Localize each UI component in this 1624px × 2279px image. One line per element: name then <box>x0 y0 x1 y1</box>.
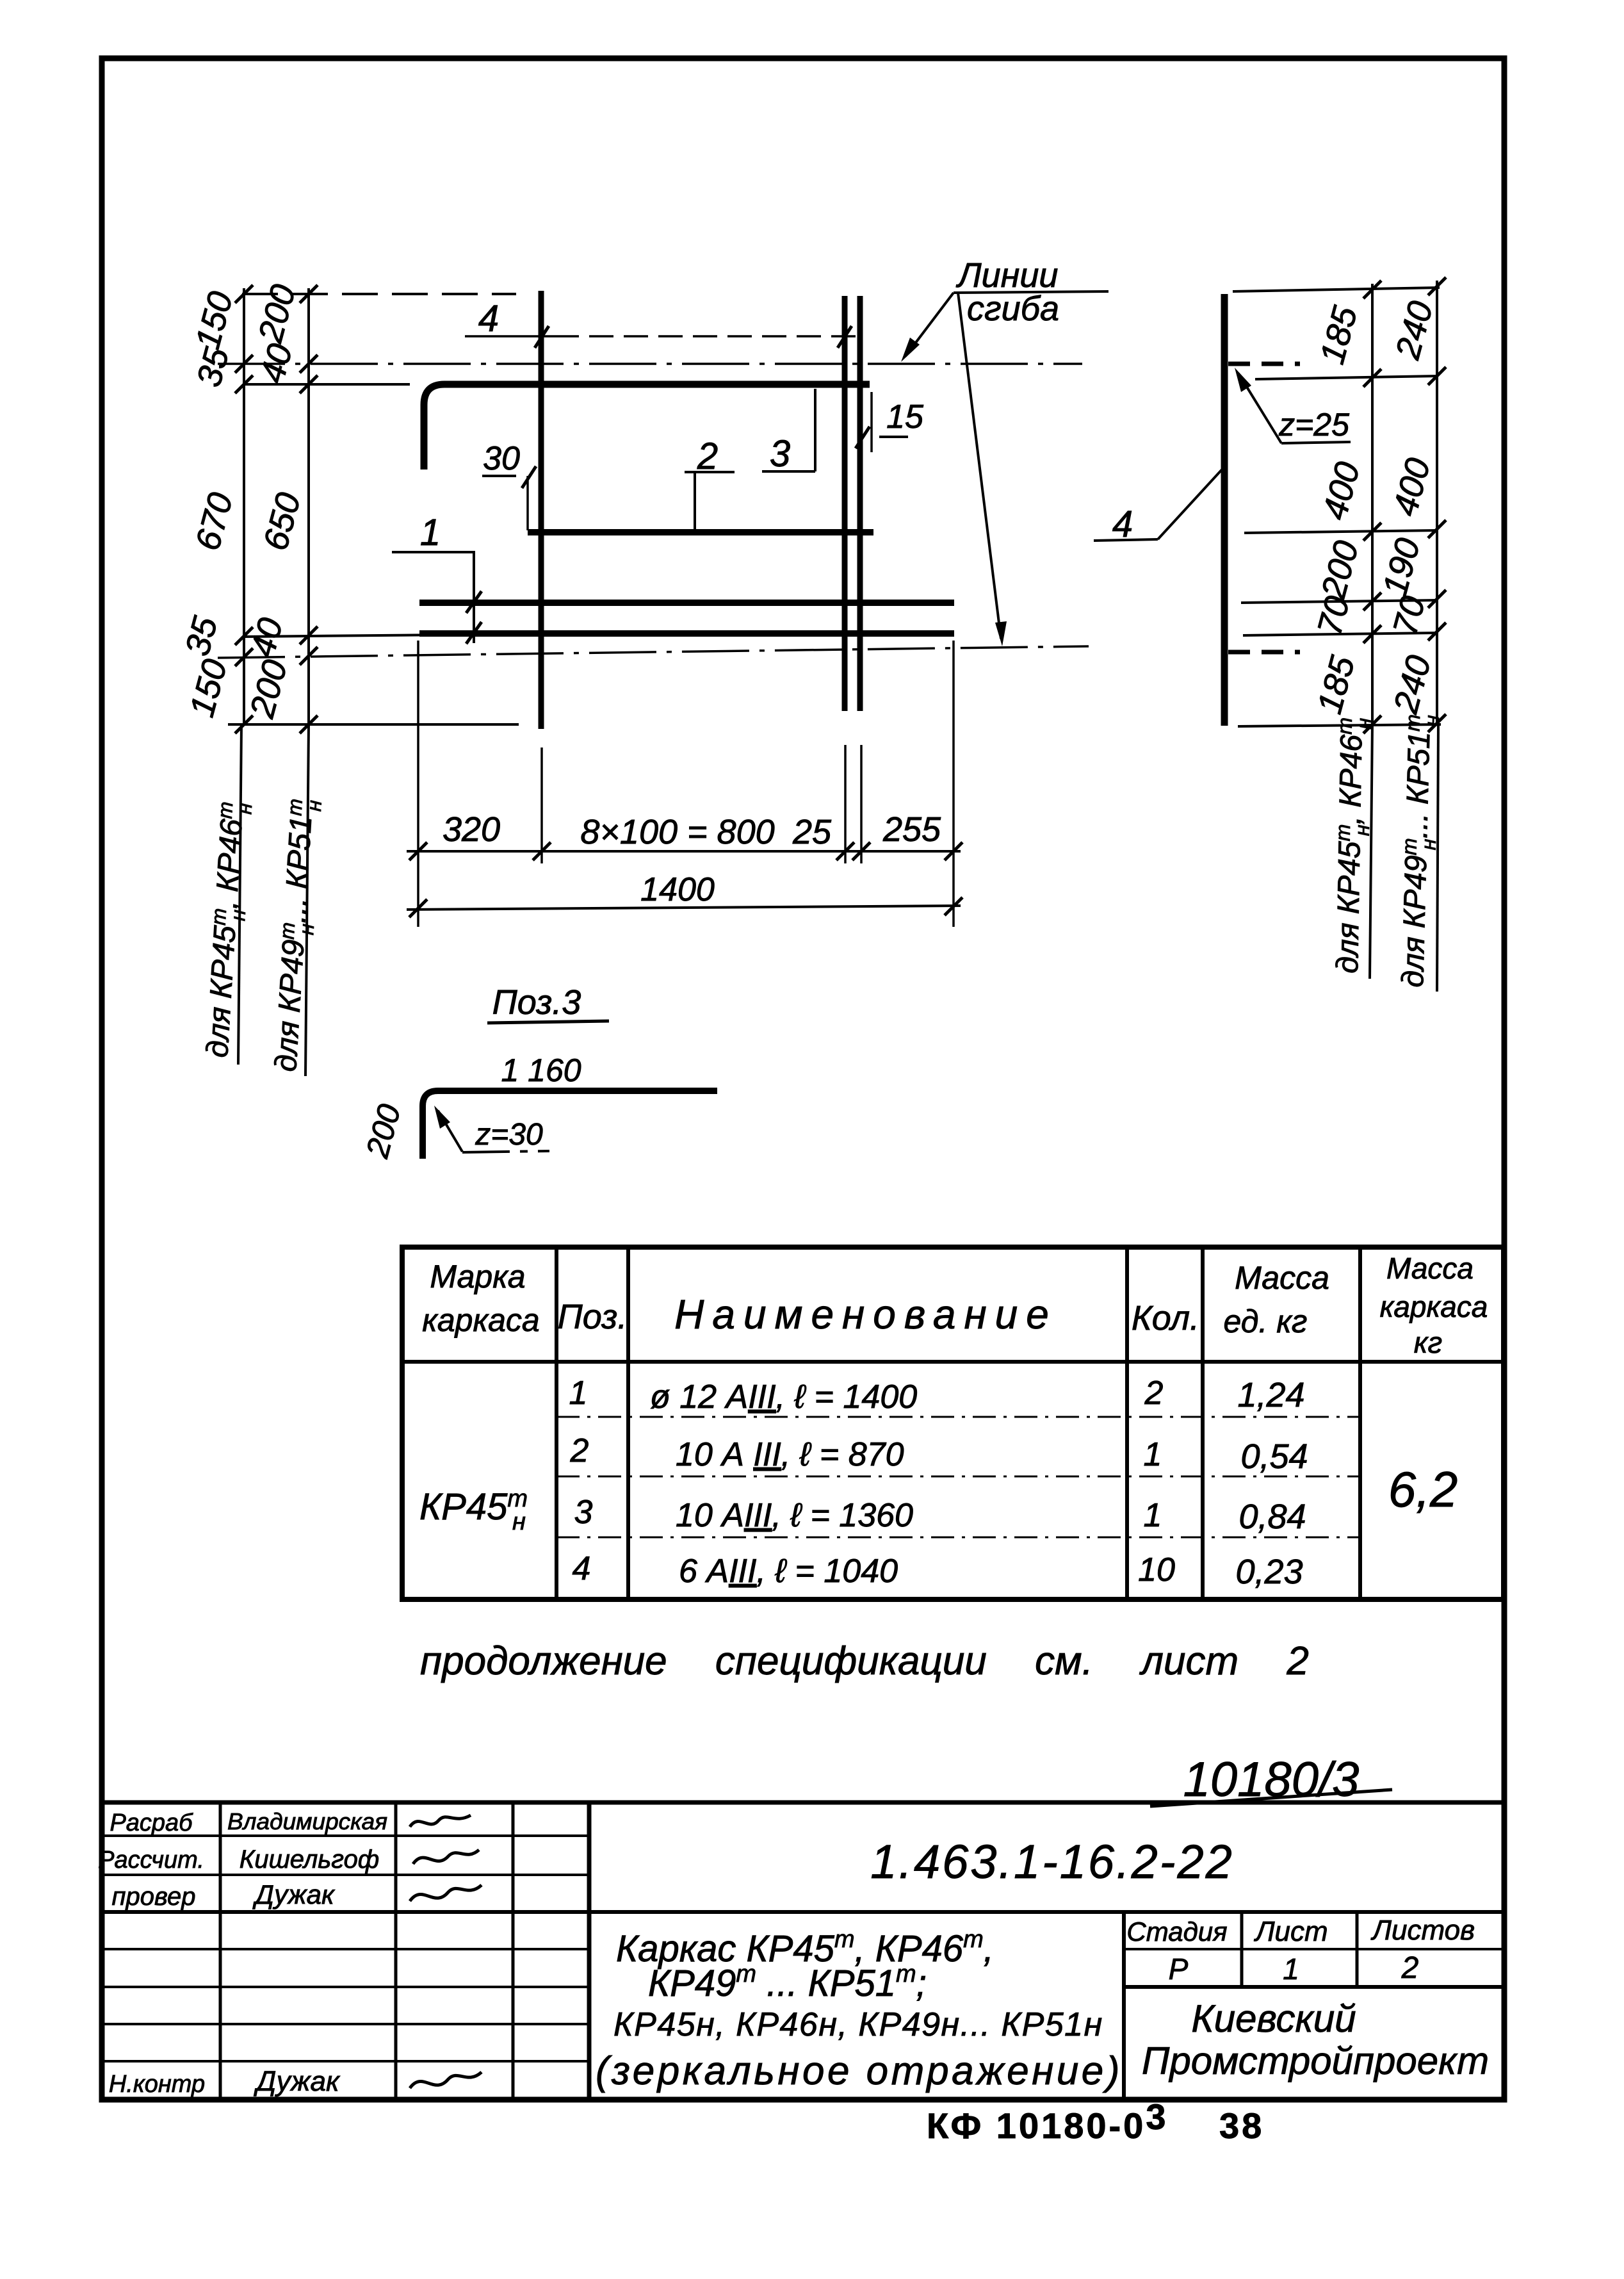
bent bar position 3 detail <box>423 1091 717 1159</box>
svg-text:1,24: 1,24 <box>1237 1376 1304 1414</box>
svg-text:1: 1 <box>1144 1497 1162 1534</box>
dimension line 320/800/25/255 <box>407 850 961 853</box>
svg-text:продолжение спецификации см.: продолжение спецификации см. лист 2 <box>420 1639 1309 1683</box>
dimension chain 2 vertical <box>307 288 310 724</box>
extension lines <box>417 641 419 927</box>
svg-text:0,54: 0,54 <box>1240 1437 1308 1476</box>
svg-text:15: 15 <box>886 398 924 436</box>
svg-text:Владимирская: Владимирская <box>227 1808 387 1834</box>
svg-text:8×100 = 800: 8×100 = 800 <box>580 813 774 851</box>
svg-text:2: 2 <box>1401 1951 1419 1985</box>
signatures <box>410 1815 471 1827</box>
svg-text:6 АIII, ℓ = 1040: 6 АIII, ℓ = 1040 <box>679 1553 898 1590</box>
svg-text:0,84: 0,84 <box>1238 1498 1306 1536</box>
bar position 4 (side view) <box>1221 294 1228 726</box>
svg-text:255: 255 <box>882 810 941 849</box>
svg-text:провер: провер <box>112 1883 196 1911</box>
svg-text:1: 1 <box>420 512 441 553</box>
dimension line 1400 <box>407 906 961 910</box>
svg-text:1.463.1-16.2-22: 1.463.1-16.2-22 <box>870 1835 1234 1888</box>
svg-text:6,2: 6,2 <box>1388 1461 1458 1517</box>
svg-text:Дужак: Дужак <box>253 2066 341 2097</box>
left table rows <box>99 1834 589 1837</box>
svg-text:z=30: z=30 <box>475 1118 543 1152</box>
specification table grid <box>402 1247 1504 1599</box>
svg-text:Р: Р <box>1169 1952 1189 1986</box>
dimension chain 1 vertical <box>243 288 245 724</box>
title block mid line <box>99 1910 1504 1914</box>
svg-text:z=25: z=25 <box>1278 407 1349 443</box>
drawing frame border <box>102 58 1504 2100</box>
leader to top fold axis <box>905 293 954 356</box>
svg-text:Кишельгоф: Кишельгоф <box>240 1845 379 1874</box>
svg-text:Листов: Листов <box>1370 1915 1475 1946</box>
svg-text:ø 12 АIII, ℓ = 1400: ø 12 АIII, ℓ = 1400 <box>650 1378 917 1416</box>
svg-text:320: 320 <box>443 810 500 849</box>
bar position 3 (bent bar, plan) <box>424 384 870 470</box>
svg-text:Н.контр: Н.контр <box>109 2071 205 2098</box>
svg-text:1: 1 <box>1283 1952 1299 1986</box>
big box divider <box>1122 1912 1126 2100</box>
bar position 4 double vertical b <box>857 296 863 711</box>
svg-text:КР49т ... КР51т;: КР49т ... КР51т; <box>648 1961 927 2004</box>
svg-text:2: 2 <box>1144 1375 1164 1412</box>
svg-text:Марка: Марка <box>430 1259 525 1295</box>
svg-text:Масса: Масса <box>1386 1252 1474 1285</box>
svg-text:Поз.3: Поз.3 <box>492 983 581 1022</box>
svg-text:Наименование: Наименование <box>674 1291 1057 1337</box>
side chain ticks <box>1363 277 1446 733</box>
svg-text:4: 4 <box>478 298 499 339</box>
svg-text:4: 4 <box>572 1550 591 1587</box>
svg-text:Поз.: Поз. <box>558 1298 628 1336</box>
bottom boundary line of bars <box>228 723 519 726</box>
extension line at lower bar level <box>244 634 516 637</box>
стадия table lines <box>1240 1912 1244 1987</box>
svg-text:Дужак: Дужак <box>252 1879 336 1909</box>
extension line at top bar level <box>244 383 410 386</box>
svg-text:Линии: Линии <box>956 256 1059 295</box>
svg-text:кг: кг <box>1414 1326 1442 1359</box>
svg-text:10: 10 <box>1138 1551 1175 1589</box>
svg-text:ед. кг: ед. кг <box>1224 1303 1308 1339</box>
svg-text:25: 25 <box>792 813 832 851</box>
tick marks chain2 <box>300 285 318 303</box>
svg-text:Рассчит.: Рассчит. <box>98 1847 204 1874</box>
svg-text:Промстройпроект: Промстройпроект <box>1142 2039 1489 2082</box>
title block top line <box>99 1801 1504 1805</box>
svg-text:30: 30 <box>483 440 520 477</box>
svg-text:1: 1 <box>1144 1436 1162 1473</box>
bar position 2 <box>528 529 873 535</box>
svg-text:10 А III, ℓ = 870: 10 А III, ℓ = 870 <box>676 1436 904 1473</box>
svg-text:Киевский: Киевский <box>1191 1997 1356 2040</box>
connector lines <box>1233 288 1440 291</box>
svg-text:Масса: Масса <box>1235 1260 1329 1296</box>
svg-text:Расраб: Расраб <box>110 1809 193 1836</box>
wire top extension dashed line <box>242 293 516 295</box>
svg-text:Лист: Лист <box>1253 1916 1328 1947</box>
bar position 4 single vertical <box>539 291 544 729</box>
ticks dim line 1 <box>409 842 962 917</box>
leader to bottom fold axis <box>958 293 1001 639</box>
bar position 1 lower <box>419 630 954 637</box>
svg-text:1: 1 <box>569 1375 588 1412</box>
chain1 label underline continuation <box>238 724 241 1065</box>
row separators <box>556 1416 1360 1418</box>
svg-text:сгиба: сгиба <box>967 290 1059 328</box>
svg-text:2: 2 <box>570 1432 589 1469</box>
side chains <box>1371 284 1374 724</box>
bar position 4 double vertical a <box>842 296 848 711</box>
left table verticals <box>219 1802 222 2100</box>
svg-text:10 АIII, ℓ = 1360: 10 АIII, ℓ = 1360 <box>676 1497 913 1534</box>
svg-text:3: 3 <box>770 433 790 475</box>
svg-text:1400: 1400 <box>640 871 715 908</box>
fold axis top (dash-dot) <box>218 363 1082 365</box>
chain2 label underline continuation <box>305 724 309 1076</box>
svg-text:каркаса: каркаса <box>422 1302 539 1338</box>
fold dashes <box>1228 362 1300 366</box>
svg-text:1 160: 1 160 <box>501 1052 581 1088</box>
bar position 1 upper <box>419 600 954 606</box>
svg-text:Кол.: Кол. <box>1132 1299 1199 1337</box>
svg-text:КР45н, КР46н, КР49н... КР51н: КР45н, КР46н, КР49н... КР51н <box>613 2006 1103 2043</box>
svg-text:(зеркальное отражение): (зеркальное отражение) <box>596 2049 1123 2093</box>
svg-text:3: 3 <box>574 1494 593 1531</box>
svg-text:каркаса: каркаса <box>1380 1290 1488 1323</box>
svg-text:0,23: 0,23 <box>1235 1553 1303 1591</box>
svg-text:Стадия: Стадия <box>1126 1916 1227 1947</box>
fold axis bottom (dash-dot) <box>218 646 1089 658</box>
tick marks chain1 <box>235 285 253 303</box>
